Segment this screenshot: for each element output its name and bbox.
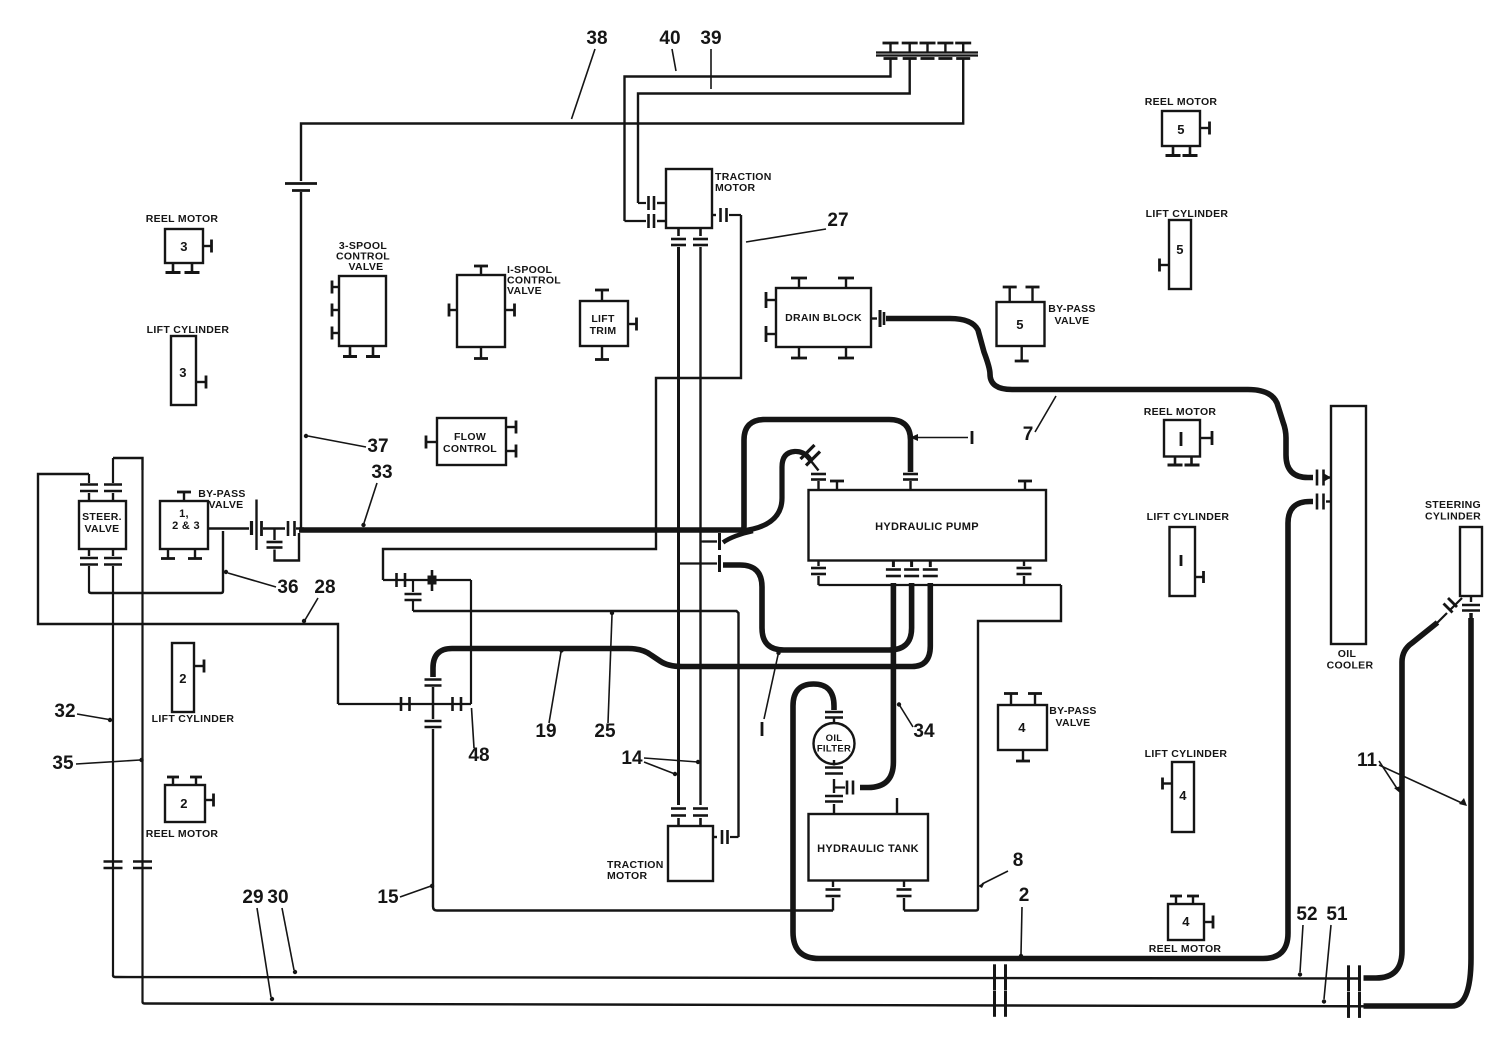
- label 32: [54, 701, 112, 722]
- svg-text:36: 36: [277, 577, 298, 598]
- long vertical 32: [112, 580, 114, 975]
- by-pass valve (1,2,3) top port: [177, 492, 191, 501]
- oil filter label: [817, 733, 851, 755]
- pump drain line y=585: [819, 584, 1062, 586]
- svg-text:REEL MOTOR: REEL MOTOR: [1145, 96, 1218, 108]
- oil filter top capacitor: [825, 712, 843, 723]
- wire from steer valve top-right to long line: [113, 458, 143, 470]
- couplings on line 29: [995, 991, 1360, 1018]
- tilted disconnect fitting: [801, 445, 821, 471]
- by-pass valve 5 box: [997, 302, 1045, 346]
- wire steer valve drain elbow: [89, 531, 223, 593]
- lift cylinder 5 numeral: [1176, 242, 1184, 257]
- 1-spool right port: [505, 304, 515, 317]
- thick hose 52 to steering cylinder: [1364, 623, 1438, 979]
- traction motor (top) label: [715, 171, 772, 194]
- label 8: [978, 850, 1023, 888]
- label 30: [267, 887, 297, 974]
- traction motor (bottom) label: [607, 859, 664, 882]
- svg-text:2: 2: [179, 671, 187, 686]
- wire TM-top right to node: [383, 215, 741, 580]
- reel motor 4 numeral: [1182, 914, 1190, 929]
- label 15: [377, 884, 434, 908]
- label 36: [224, 570, 299, 598]
- svg-text:DRAIN BLOCK: DRAIN BLOCK: [785, 312, 862, 324]
- svg-text:LIFT CYLINDER: LIFT CYLINDER: [1146, 208, 1229, 220]
- drain block label: [785, 312, 862, 324]
- svg-text:3: 3: [179, 365, 187, 380]
- 3-spool control valve label: [336, 240, 390, 273]
- label 11: [1357, 750, 1467, 806]
- traction motor (top) right port coupling: [712, 208, 741, 222]
- hydraulic pump label: [875, 521, 979, 533]
- by-pass valve 5 bottom port: [1015, 346, 1029, 361]
- pump bottom port A capacitor: [811, 561, 826, 586]
- svg-text:HYDRAULIC TANK: HYDRAULIC TANK: [817, 843, 919, 855]
- traction motor (bottom) right port coupling: [713, 830, 739, 844]
- reel motor 4 box: [1168, 904, 1204, 940]
- steering cylinder label: [1425, 499, 1481, 523]
- coupling right of node 48: [453, 697, 462, 711]
- traction motor (bottom) box: [668, 826, 713, 881]
- 1-spool left port: [449, 304, 457, 317]
- reel motor 5 feet: [1166, 146, 1198, 156]
- label 40: [659, 28, 680, 71]
- steer valve bottom-right port capacitor: [104, 549, 122, 580]
- svg-text:REEL MOTOR: REEL MOTOR: [1144, 406, 1217, 418]
- lift cylinder 3 numeral: [179, 365, 187, 380]
- svg-text:FLOW: FLOW: [454, 431, 486, 443]
- label 19: [535, 648, 563, 742]
- svg-text:30: 30: [267, 887, 288, 908]
- svg-text:37: 37: [367, 436, 388, 457]
- svg-text:VALVE: VALVE: [507, 285, 542, 297]
- thick hose: line 33 up over to pump top port: [741, 420, 911, 531]
- reel motor 2 top ports: [167, 777, 202, 785]
- svg-text:VALVE: VALVE: [85, 523, 120, 535]
- svg-text:MOTOR: MOTOR: [607, 870, 648, 882]
- svg-text:48: 48: [468, 745, 489, 766]
- lift cylinder 3 right port: [196, 376, 206, 389]
- svg-text:VALVE: VALVE: [209, 499, 244, 511]
- svg-text:15: 15: [377, 887, 399, 908]
- svg-text:BY-PASS: BY-PASS: [1048, 303, 1095, 315]
- traction motor (top) bottom port couplings: [671, 228, 708, 245]
- svg-text:LIFT CYLINDER: LIFT CYLINDER: [1145, 748, 1228, 760]
- wire 28: steer valve top-left around to node 48: [38, 474, 338, 704]
- label 27: [746, 210, 849, 242]
- by-pass valve 5 label: [1048, 303, 1095, 327]
- steer valve label: [82, 511, 122, 535]
- svg-text:STEERING: STEERING: [1425, 499, 1481, 511]
- svg-text:5: 5: [1177, 122, 1185, 137]
- svg-text:4: 4: [1179, 788, 1187, 803]
- thick hose 2: bottom run to oil cooler: [819, 502, 1313, 959]
- traction motor (bottom) top port couplings: [671, 809, 708, 827]
- reel motor 5 label: [1145, 96, 1218, 108]
- wire 15: node 48 down and right to tank port: [433, 729, 833, 911]
- label 37: [304, 434, 389, 457]
- svg-text:19: 19: [535, 721, 556, 742]
- lift cylinder 1 box: [1170, 527, 1196, 596]
- svg-text:27: 27: [827, 210, 848, 231]
- label 1 near oil filter: [762, 651, 781, 736]
- svg-text:2: 2: [180, 796, 188, 811]
- label 25: [594, 611, 616, 742]
- svg-text:OIL: OIL: [1338, 648, 1357, 660]
- lift cylinder 3 label: [147, 324, 230, 336]
- traction line left (14): [677, 247, 680, 805]
- tank top stub: [896, 798, 898, 814]
- wire 30/52 bottom line: [113, 975, 1361, 979]
- svg-text:33: 33: [371, 462, 392, 483]
- lift trim top port: [595, 290, 609, 301]
- svg-text:TRIM: TRIM: [590, 325, 617, 337]
- 1-spool bottom port: [474, 347, 488, 359]
- reel motor 5 box: [1162, 111, 1200, 146]
- thick hose 7: drain block to oil cooler: [886, 319, 1313, 478]
- by-pass valve 4 label: [1049, 705, 1096, 729]
- svg-text:FILTER: FILTER: [817, 744, 851, 755]
- pump top port 2 plug: [830, 481, 844, 490]
- label 7: [1023, 396, 1056, 445]
- svg-text:STEER.: STEER.: [82, 511, 122, 523]
- label 35: [52, 753, 143, 774]
- reel motor 1 feet: [1168, 457, 1200, 466]
- battery tap symbol on wire 38: [285, 184, 317, 191]
- hydraulic tank label: [817, 843, 919, 855]
- traction motor (top) left upper port coupling: [638, 196, 666, 210]
- label 28: [302, 577, 336, 623]
- 1-spool top port: [474, 266, 488, 275]
- svg-text:MOTOR: MOTOR: [715, 182, 756, 194]
- by-pass valve (1,2,3) numerals: [172, 508, 200, 532]
- 3-spool control valve box: [339, 276, 386, 346]
- oil cooler label: [1327, 648, 1374, 672]
- reel motor 3 right port: [203, 240, 212, 253]
- manifold (tow valve bank) top right: [876, 43, 978, 59]
- wire 39: [638, 59, 910, 204]
- lift trim bottom port: [595, 346, 609, 360]
- thick hose 51 to steering cylinder: [1364, 618, 1472, 1006]
- flow control label: [443, 431, 497, 455]
- lift cylinder 1 numeral: [1180, 555, 1183, 566]
- svg-text:1,: 1,: [179, 508, 189, 520]
- svg-text:40: 40: [659, 28, 680, 49]
- reel motor 5 right port: [1200, 122, 1210, 135]
- reel motor 1 numeral: [1180, 432, 1183, 446]
- drain block left ports: [766, 292, 776, 342]
- svg-text:34: 34: [913, 721, 935, 742]
- drain block box: [776, 288, 871, 347]
- reel motor 2 numeral: [180, 796, 188, 811]
- 1-spool control valve box: [457, 275, 505, 347]
- svg-text:5: 5: [1016, 317, 1024, 332]
- label 39: [700, 28, 721, 89]
- by-pass valve 4 numeral: [1018, 720, 1026, 735]
- 3-spool feet: [343, 346, 380, 357]
- svg-text:VALVE: VALVE: [1056, 717, 1091, 729]
- flow control box: [437, 418, 506, 465]
- svg-text:7: 7: [1023, 424, 1034, 445]
- wire node column x=471: [470, 580, 472, 704]
- reel motor 3 label: [146, 213, 219, 225]
- svg-text:25: 25: [594, 721, 616, 742]
- reel motor 2 box: [165, 785, 205, 822]
- steer valve top-right port capacitor: [104, 458, 122, 501]
- reel motor 2 right port: [205, 794, 214, 807]
- wire 8 staircase: [904, 585, 1061, 911]
- svg-text:VALVE: VALVE: [349, 261, 384, 273]
- coupling at pump loop tap: [703, 533, 720, 550]
- svg-text:REEL MOTOR: REEL MOTOR: [1149, 943, 1222, 955]
- oil cooler left port 2 coupling: [1317, 494, 1331, 510]
- lift trim right port: [628, 318, 637, 331]
- svg-text:REEL MOTOR: REEL MOTOR: [146, 828, 219, 840]
- svg-text:OIL: OIL: [826, 733, 843, 744]
- steer valve box: [79, 501, 126, 549]
- by-pass valve (1,2,3) right port line: [208, 527, 249, 529]
- svg-text:CYLINDER: CYLINDER: [1425, 511, 1481, 523]
- by-pass valve 4 box: [998, 705, 1047, 750]
- pump top port 4 plug: [1018, 481, 1032, 490]
- svg-text:LIFT: LIFT: [591, 313, 615, 325]
- oil cooler left port 1 coupling: [1317, 470, 1331, 486]
- lift cylinder 4 left port: [1163, 778, 1173, 790]
- drain block top ports: [791, 278, 854, 288]
- steering cylinder left tilted coupling: [1437, 598, 1462, 623]
- lift cylinder 1 label: [1147, 511, 1230, 523]
- svg-text:BY-PASS: BY-PASS: [1049, 705, 1096, 717]
- wire 28 horizontal into node 48: [338, 703, 471, 705]
- node 48 column capacitors: [425, 680, 442, 728]
- label 51: [1322, 904, 1348, 1004]
- by-pass valve 5 numeral: [1016, 317, 1024, 332]
- by-pass valve (1,2,3) label: [198, 488, 245, 511]
- thick hose to tilted fitting at pump port 1: [741, 451, 811, 531]
- thick hose 33: [299, 527, 741, 533]
- by-pass valve 4 top ports: [1004, 694, 1042, 706]
- callout 1 at pump loop: [910, 431, 972, 444]
- lift trim label: [590, 313, 617, 337]
- lift cylinder 2 right port: [194, 660, 204, 673]
- reel motor 5 numeral: [1177, 122, 1185, 137]
- traction motor (top) left lower port coupling: [625, 214, 667, 228]
- svg-text:4: 4: [1182, 914, 1190, 929]
- hanging capacitor to drain line: [405, 580, 422, 611]
- thick hose: pump port B down to filter coupling: [860, 583, 893, 788]
- svg-text:2: 2: [1019, 885, 1030, 906]
- reel motor 3 box: [165, 229, 203, 263]
- tank bottom port 1 capacitor: [826, 881, 841, 911]
- traction motor (top) box: [666, 169, 712, 228]
- lift cylinder 3 box: [171, 336, 196, 405]
- oil filter stem lower: [825, 788, 843, 815]
- lift cylinder 5 label: [1146, 208, 1229, 220]
- hook from corner to coupling: [723, 531, 753, 543]
- drain block bottom ports: [791, 347, 854, 358]
- couplings on line 30: [995, 964, 1360, 991]
- by-pass valve 5 top ports: [1003, 287, 1040, 302]
- coupling left of node 48: [401, 697, 410, 711]
- 1-spool control valve label: [507, 264, 561, 297]
- svg-text:52: 52: [1296, 904, 1317, 925]
- drain block right coupling: [871, 310, 884, 327]
- reel motor 2 label: [146, 828, 219, 840]
- svg-text:REEL MOTOR: REEL MOTOR: [146, 213, 219, 225]
- svg-text:5: 5: [1176, 242, 1184, 257]
- relief loop below node 33: [267, 529, 300, 561]
- reel motor 1 label: [1144, 406, 1217, 418]
- lift cylinder 2 numeral: [179, 671, 187, 686]
- coupling on row: [397, 573, 406, 587]
- svg-text:39: 39: [700, 28, 721, 49]
- quick disconnect at by-pass (1,2,3): [252, 500, 286, 551]
- reel motor 1 right port: [1200, 431, 1212, 445]
- hydraulic pump box: [809, 490, 1047, 561]
- svg-text:LIFT CYLINDER: LIFT CYLINDER: [147, 324, 230, 336]
- wire fitting row y=580: [383, 579, 471, 581]
- label 29: [242, 887, 274, 1001]
- wire 38: [301, 59, 963, 182]
- oil filter stem upper: [825, 760, 843, 788]
- svg-text:VALVE: VALVE: [1055, 315, 1090, 327]
- capacitor on line 32: [104, 862, 123, 869]
- by-pass valve (reels 1,2,3) box: [160, 501, 208, 549]
- lift cylinder 4 label: [1145, 748, 1228, 760]
- oil filter circle: [814, 723, 855, 764]
- reel motor 4 label: [1149, 943, 1222, 955]
- svg-text:HYDRAULIC PUMP: HYDRAULIC PUMP: [875, 521, 979, 533]
- flow control left port: [426, 436, 437, 449]
- steering cylinder box: [1460, 527, 1482, 596]
- reel motor 4 top ports: [1170, 896, 1199, 904]
- svg-text:29: 29: [242, 887, 263, 908]
- oil cooler box: [1331, 406, 1366, 644]
- steer valve top-left port capacitor: [80, 474, 98, 501]
- by-pass valve (1,2,3) bottom ports: [161, 549, 202, 559]
- svg-text:8: 8: [1013, 850, 1024, 871]
- pump top port 1 capacitor: [811, 474, 826, 490]
- hydraulic tank box: [809, 814, 929, 881]
- lift cylinder 4 numeral: [1179, 788, 1187, 803]
- svg-text:35: 35: [52, 753, 74, 774]
- svg-text:CONTROL: CONTROL: [443, 443, 497, 455]
- long vertical 35: [141, 470, 143, 1002]
- 3-spool left ports: [332, 281, 339, 340]
- label 38: [572, 28, 608, 119]
- svg-text:38: 38: [586, 28, 607, 49]
- label 2: [1019, 885, 1030, 958]
- reel motor 3 feet: [166, 263, 200, 273]
- svg-text:11: 11: [1357, 750, 1378, 771]
- label 33: [361, 462, 392, 527]
- svg-text:2 & 3: 2 & 3: [172, 520, 200, 532]
- second disconnect pair: [288, 521, 304, 536]
- flow control right ports: [506, 421, 516, 458]
- thick hose: filter arc to down-pipe: [793, 684, 834, 959]
- svg-text:3: 3: [180, 239, 188, 254]
- stub from traction line to coupling: [701, 540, 717, 542]
- steer valve bottom-left port capacitor: [80, 549, 98, 591]
- thick hose 19: elbow at node 48 to pump bottom port: [433, 583, 930, 677]
- lift cylinder 2 box: [172, 643, 194, 712]
- traction line right (14): [699, 247, 701, 805]
- reel motor 4 right port: [1204, 916, 1213, 929]
- pump bottom right port capacitor: [1017, 561, 1032, 586]
- lift cylinder 1 right port: [1195, 571, 1204, 583]
- lift cylinder 2 label: [152, 713, 235, 725]
- tank bottom port 2 capacitor: [897, 881, 912, 911]
- svg-text:14: 14: [621, 748, 643, 769]
- lift cylinder 4 box: [1172, 762, 1194, 832]
- svg-text:COOLER: COOLER: [1327, 660, 1374, 672]
- label 34: [897, 702, 935, 742]
- svg-text:4: 4: [1018, 720, 1026, 735]
- wire 40: [625, 59, 891, 222]
- wire 38 lower segment: [300, 192, 302, 530]
- svg-text:LIFT CYLINDER: LIFT CYLINDER: [152, 713, 235, 725]
- svg-text:32: 32: [54, 701, 75, 722]
- label 14: [621, 748, 700, 776]
- capacitor on line 35: [133, 862, 152, 869]
- lift trim box: [580, 301, 628, 346]
- svg-text:LIFT CYLINDER: LIFT CYLINDER: [1147, 511, 1230, 523]
- check valve square on row: [428, 570, 437, 591]
- label 52: [1296, 904, 1317, 977]
- svg-text:51: 51: [1326, 904, 1348, 925]
- thick hose: coupling to pump bottom port: [723, 565, 912, 650]
- lift cylinder 5 left port: [1160, 259, 1170, 272]
- pump bottom ports B,C,D capacitors: [886, 561, 938, 577]
- lift cylinder 5 box: [1169, 220, 1191, 289]
- svg-text:28: 28: [314, 577, 335, 598]
- wire drain line y=611 to TM-bottom right: [413, 611, 739, 837]
- by-pass valve 4 bottom port: [1016, 750, 1030, 761]
- steering cylinder right port capacitor: [1462, 596, 1480, 618]
- label 48: [468, 708, 489, 766]
- coupling at oil filter: [834, 781, 853, 795]
- reel motor 3 numeral: [180, 239, 188, 254]
- coupling at lower pump tap: [679, 555, 720, 572]
- reel motor 1 box: [1164, 420, 1200, 457]
- wire 29/51 bottom line: [143, 1002, 1451, 1007]
- pump top port 3 capacitor: [903, 474, 918, 490]
